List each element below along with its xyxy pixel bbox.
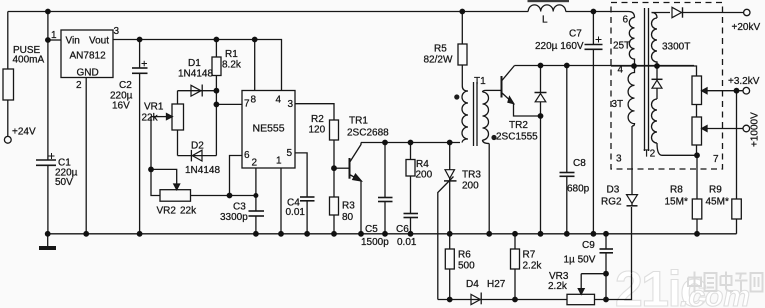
junction: VR1/VR2 wiper node bbox=[148, 167, 154, 173]
T1 secondary phase dot bbox=[491, 135, 496, 140]
tap +1000V with arrow bbox=[707, 128, 743, 130]
junction: ground rail x TR1 emitter bbox=[358, 231, 364, 237]
svg-text:R5: R5 bbox=[434, 44, 447, 55]
resistor R8 bbox=[692, 199, 702, 219]
wire: VR2 wiper link bbox=[151, 169, 177, 184]
capacitor C7 bbox=[585, 44, 603, 46]
svg-text:2.2k: 2.2k bbox=[523, 261, 543, 272]
wire: D1 node down to pin7 node and D2 loop bbox=[215, 91, 217, 156]
svg-text:R1: R1 bbox=[225, 49, 238, 60]
svg-text:NE555: NE555 bbox=[253, 123, 285, 135]
regulator U1 AN7812 bbox=[61, 30, 113, 78]
svg-text:22k: 22k bbox=[142, 113, 159, 124]
junction: ground rail x C6 bbox=[408, 231, 414, 237]
wire: divider bottom to 3300T return bbox=[696, 145, 698, 155]
svg-text:C8: C8 bbox=[573, 158, 586, 169]
svg-text:H27: H27 bbox=[487, 279, 506, 290]
svg-text:7: 7 bbox=[713, 154, 719, 165]
junction: pin4 line x C8 bbox=[564, 63, 570, 69]
wire: R4 branch bbox=[410, 143, 412, 160]
svg-text:45M*: 45M* bbox=[706, 197, 729, 208]
junction: ground rail x R7 bbox=[512, 231, 518, 237]
wire: 3300T bottom to pin7 node bbox=[662, 154, 697, 156]
junction: trigger line x R6 bbox=[447, 297, 453, 303]
junction: collector line x TR3 bbox=[447, 140, 453, 146]
svg-text:D2: D2 bbox=[191, 141, 204, 152]
svg-text:1: 1 bbox=[51, 30, 57, 41]
wire: R5 to T1 primary top bbox=[461, 65, 463, 86]
junction: R1/D1 node bbox=[214, 88, 220, 94]
junction: T2 pin4 x 25T/3T bbox=[631, 63, 637, 69]
wire: +3.2kV down line to R9 bbox=[736, 91, 738, 199]
junction: VR3 wiper x C9 bbox=[603, 271, 609, 277]
svg-text:VR1: VR1 bbox=[144, 102, 164, 113]
wire: R4 to C6 bbox=[410, 176, 412, 213]
wire: R8 to rail bbox=[696, 219, 698, 234]
svg-text:R9: R9 bbox=[709, 185, 722, 196]
svg-text:6: 6 bbox=[244, 150, 250, 161]
resistor R3 bbox=[330, 197, 339, 215]
wire: VR1 top from D1 bbox=[177, 91, 179, 104]
capacitor C4 bbox=[300, 196, 315, 198]
junction: ground rail x zener branch bbox=[538, 231, 544, 237]
wire: R3 to rail bbox=[333, 215, 335, 234]
svg-text:6: 6 bbox=[623, 15, 629, 26]
svg-text:120: 120 bbox=[309, 125, 326, 136]
svg-text:TR1: TR1 bbox=[349, 116, 368, 127]
svg-text:TR3: TR3 bbox=[462, 170, 481, 181]
svg-text:0.01: 0.01 bbox=[397, 237, 417, 248]
capacitor C8 bbox=[560, 172, 575, 174]
svg-text:8.2k: 8.2k bbox=[222, 60, 242, 71]
capacitor C9 bbox=[600, 248, 614, 250]
junction: +12V rail x R1 bbox=[214, 37, 220, 43]
watermark 21ic.com bbox=[615, 261, 763, 308]
wire: VR1 bottom to D2 bbox=[177, 130, 179, 156]
wire: T1 secondary top to TR2 base bbox=[486, 89, 502, 91]
HV rectifier diode between 3300T sections bbox=[656, 66, 658, 79]
wire: R5 branch from top rail bbox=[461, 12, 463, 45]
wire: pin 3 output to R2 bbox=[295, 104, 334, 120]
svg-text:1: 1 bbox=[276, 156, 282, 167]
wire: pin 6 to node bbox=[230, 156, 243, 196]
tap +3.2kV with arrow bbox=[707, 90, 744, 92]
svg-text:3300T: 3300T bbox=[662, 42, 690, 53]
capacitor C2 bbox=[132, 67, 148, 69]
svg-text:TR2: TR2 bbox=[509, 120, 528, 131]
capacitor C6 bbox=[404, 213, 419, 215]
resistor R2 bbox=[330, 120, 339, 140]
junction: top rail x C7 bbox=[591, 9, 597, 15]
svg-text:RG2: RG2 bbox=[601, 197, 622, 208]
wire: pin 7 down to R8 bbox=[696, 155, 698, 199]
svg-text:C3: C3 bbox=[233, 202, 246, 213]
svg-text:4: 4 bbox=[618, 65, 624, 76]
svg-text:.com: .com bbox=[680, 280, 750, 308]
svg-text:1N4148: 1N4148 bbox=[185, 165, 220, 176]
wire: TR2 collector line y=65.5 bbox=[515, 65, 695, 67]
T1 core bbox=[473, 82, 475, 146]
wire: pin4 line corner down to divider R top bbox=[694, 66, 697, 76]
wire: pin 1 to rail bbox=[280, 168, 282, 234]
svg-text:C2: C2 bbox=[119, 80, 132, 91]
wire: pin 7 feed bbox=[216, 103, 242, 105]
junction: ground rail x C8 bbox=[564, 231, 570, 237]
junction: top rail x C1 branch bbox=[45, 9, 51, 15]
transformer T2 3300T winding lower bbox=[652, 99, 662, 155]
svg-text:R2: R2 bbox=[311, 114, 324, 125]
junction: ground rail x R3 bbox=[331, 231, 337, 237]
svg-text:1µ 50V: 1µ 50V bbox=[564, 255, 596, 266]
wire: VR1 wiper column down to VR2 bbox=[151, 117, 160, 196]
svg-text:3: 3 bbox=[114, 26, 120, 37]
IC U2 NE555 bbox=[242, 91, 295, 169]
wire: C5 branch bbox=[384, 143, 386, 198]
junction: pin6 x pin2 line bbox=[253, 193, 258, 198]
potentiometer VR1 bbox=[172, 104, 184, 130]
junction: ground rail x C9 bbox=[603, 231, 609, 237]
T1 primary phase dot bbox=[454, 94, 459, 99]
svg-text:AN7812: AN7812 bbox=[70, 51, 107, 62]
junction: C1 branch x Vin pin1 bbox=[45, 37, 51, 43]
wire: left input drop from rail to fuse bbox=[7, 12, 9, 70]
junction: TR1 base node bbox=[331, 165, 337, 171]
svg-text:400mA: 400mA bbox=[13, 55, 45, 66]
svg-text:C7: C7 bbox=[569, 29, 582, 40]
wire: pin 8 to +12V rail bbox=[254, 40, 256, 91]
inductor L on top rail bbox=[528, 5, 566, 12]
capacitor C3 bbox=[249, 210, 265, 212]
svg-text:Vout: Vout bbox=[89, 36, 109, 47]
svg-text:8: 8 bbox=[251, 95, 257, 106]
diode D4 H27 bbox=[471, 294, 480, 304]
capacitor C1 bbox=[36, 159, 56, 161]
fuse PUSE 400mA bbox=[3, 69, 14, 100]
svg-text:200: 200 bbox=[416, 170, 433, 181]
wire: AN7812 GND pin2 down to rail bbox=[85, 78, 87, 234]
resistor divider upper (bleeder) bbox=[692, 76, 702, 105]
wire: C1 to ground rail bbox=[47, 165, 49, 234]
junction: top rail x R5 bbox=[459, 9, 465, 15]
resistor R4 bbox=[406, 160, 415, 177]
junction: ground rail x GND pin2 bbox=[83, 231, 89, 237]
ground bbox=[39, 246, 56, 250]
resistor R1 bbox=[212, 57, 221, 76]
wire: base node to R3 bbox=[333, 168, 335, 197]
wire: D3 up to T2 pin 3 bbox=[631, 126, 633, 195]
wire: C1 branch vertical bbox=[47, 12, 49, 160]
svg-text:+1000V: +1000V bbox=[750, 112, 761, 147]
svg-text:2: 2 bbox=[252, 158, 258, 169]
dashed enclosure of T2 bbox=[611, 3, 723, 170]
junction: pin7 node bbox=[214, 102, 220, 108]
wire: zener node down to rail bbox=[540, 116, 542, 234]
potentiometer VR2 bbox=[160, 190, 191, 202]
terminal +3.2kV bbox=[743, 87, 750, 94]
junction: ground rail x C5 bbox=[382, 231, 388, 237]
wire: VR3 right terminal loop to D3 line bbox=[595, 274, 632, 300]
svg-text:R4: R4 bbox=[416, 159, 429, 170]
junction: +12V rail x pin8 bbox=[252, 37, 258, 43]
svg-text:3: 3 bbox=[616, 154, 622, 165]
svg-text:80: 80 bbox=[342, 212, 354, 223]
wire: trigger bottom line with R6 R7 bbox=[438, 299, 567, 301]
wire: HV output line to +20kV diode bbox=[652, 12, 671, 14]
diode D2 bbox=[178, 155, 217, 157]
wire: C2 branch bbox=[139, 40, 141, 68]
svg-text:220µ 160V: 220µ 160V bbox=[535, 41, 584, 52]
resistor R7 bbox=[514, 234, 516, 249]
junction: ground rail x TR3/R6 bbox=[447, 231, 453, 237]
wire: R1 bottom to D1 node bbox=[215, 76, 217, 91]
junction: pin4 line x zener bbox=[538, 63, 544, 69]
zener diode (TR2 protection) bbox=[540, 66, 542, 94]
wire: R1 branch from +12V rail bbox=[215, 40, 217, 58]
junction: 3300T return x divider bbox=[694, 152, 700, 158]
svg-text:GND: GND bbox=[77, 68, 99, 79]
wire: D3 line crossing rail (no junction) bbox=[631, 207, 633, 274]
svg-text:D3: D3 bbox=[607, 185, 620, 196]
svg-text:T1: T1 bbox=[474, 76, 486, 87]
svg-text:T2: T2 bbox=[644, 149, 656, 160]
svg-text:+3.2kV: +3.2kV bbox=[728, 76, 760, 87]
wire: C7 to ground rail (crosses y65 line) bbox=[592, 49, 594, 234]
wire: VR2 right terminal to pin6/pin2 node bbox=[191, 195, 230, 197]
thyristor TR3 bbox=[449, 143, 451, 170]
junction: ground rail x R8 bbox=[694, 231, 700, 237]
svg-text:16V: 16V bbox=[112, 101, 130, 112]
svg-text:C5: C5 bbox=[365, 224, 378, 235]
svg-text:+20kV: +20kV bbox=[732, 22, 761, 33]
junction: collector line x C5 bbox=[382, 140, 388, 146]
svg-text:22k: 22k bbox=[180, 206, 197, 217]
junction: trigger line x R7 bbox=[512, 297, 518, 303]
terminal +20kV bbox=[744, 9, 750, 15]
svg-text:2.2k: 2.2k bbox=[548, 281, 568, 292]
svg-text:15M*: 15M* bbox=[665, 197, 688, 208]
transformer T2 25T winding bbox=[629, 12, 635, 67]
svg-text:3: 3 bbox=[288, 99, 294, 110]
junction: ground rail x C3 bbox=[253, 231, 259, 237]
transformer T2 3T winding bbox=[628, 66, 634, 126]
svg-text:Vin: Vin bbox=[66, 36, 80, 47]
junction: collector line x R4 bbox=[408, 140, 414, 146]
transformer T2 3300T winding upper bbox=[652, 13, 658, 67]
svg-text:L: L bbox=[542, 15, 548, 26]
junction: pin4 line x 3300T bbox=[654, 63, 660, 69]
wire: pin 2 down with C3 bbox=[255, 168, 257, 211]
terminal +24V bbox=[4, 136, 11, 143]
junction: ground rail x C7 branch bbox=[591, 231, 597, 237]
svg-text:50V: 50V bbox=[55, 177, 73, 188]
svg-text:3300p: 3300p bbox=[220, 212, 248, 223]
svg-text:VR2: VR2 bbox=[157, 206, 177, 217]
svg-text:7: 7 bbox=[244, 99, 250, 110]
wire: VR3 wiper to C9 node bbox=[581, 273, 606, 275]
transistor TR1 2SC2688 bbox=[334, 167, 350, 169]
wire: top +24V rail bbox=[8, 11, 528, 13]
junction: ground rail x T1 secondary bbox=[486, 231, 492, 237]
wire: divider middle link bbox=[696, 105, 698, 118]
wire: pin 5 with C4 to rail bbox=[295, 153, 307, 197]
svg-text:200: 200 bbox=[462, 181, 479, 192]
transistor TR2 2SC1555 bbox=[501, 76, 503, 98]
wire: C8 branch bbox=[566, 66, 568, 173]
wire: bottom ground rail bbox=[48, 233, 737, 235]
wire: C9 branch below rail bbox=[605, 234, 607, 249]
junction: +12V rail x C2 bbox=[137, 37, 143, 43]
resistor divider lower (bleeder) bbox=[692, 117, 702, 145]
junction: +3.2kV tap node bbox=[734, 88, 740, 94]
T2 core bbox=[644, 8, 646, 151]
junction: pin6/VR2 node bbox=[227, 193, 233, 199]
svg-text:25T: 25T bbox=[613, 41, 630, 52]
svg-text:1N4148: 1N4148 bbox=[178, 69, 213, 80]
svg-text:680p: 680p bbox=[567, 184, 590, 195]
potentiometer VR3 bbox=[567, 294, 595, 304]
wire: TR3 gate down to trigger line bbox=[438, 177, 454, 300]
junction: ground rail x C2 bbox=[137, 231, 143, 237]
svg-text:C9: C9 bbox=[582, 240, 595, 251]
svg-text:+24V: +24V bbox=[12, 127, 36, 138]
svg-text:500: 500 bbox=[458, 261, 475, 272]
svg-text:3T: 3T bbox=[612, 99, 624, 110]
resistor R9 bbox=[732, 199, 742, 219]
svg-text:D4: D4 bbox=[466, 279, 479, 290]
svg-text:R7: R7 bbox=[523, 250, 536, 261]
svg-text:2: 2 bbox=[76, 80, 82, 91]
junction: ground rail x C4 bbox=[304, 231, 310, 237]
svg-text:D1: D1 bbox=[188, 58, 201, 69]
svg-text:2SC2688: 2SC2688 bbox=[347, 128, 389, 139]
junction: VR3 right x C9 line bbox=[603, 297, 609, 303]
svg-text:0.01: 0.01 bbox=[286, 207, 306, 218]
wire: fuse to +24V terminal bbox=[7, 100, 9, 136]
svg-text:5: 5 bbox=[287, 148, 293, 159]
svg-text:C6: C6 bbox=[396, 224, 409, 235]
junction: TR2 emitter x zener bbox=[538, 113, 544, 119]
diode D1 bbox=[178, 90, 217, 92]
wire: T1 secondary bottom to rail bbox=[488, 144, 490, 234]
junction: ground rail x C1/ground bbox=[45, 231, 51, 237]
wire: diode to +20kV terminal bbox=[681, 12, 744, 14]
svg-text:R6: R6 bbox=[458, 250, 471, 261]
diode output rectifier bbox=[672, 7, 682, 17]
resistor R6 bbox=[449, 234, 451, 249]
wire: pin6 node over to pin2 line bbox=[230, 195, 256, 197]
svg-text:R8: R8 bbox=[670, 185, 683, 196]
junction: ground rail x pin1 bbox=[278, 231, 284, 237]
svg-text:R3: R3 bbox=[342, 201, 355, 212]
svg-text:1500p: 1500p bbox=[361, 237, 389, 248]
wire: TR1 collector line to T1 primary bbox=[361, 142, 460, 144]
wire: pin1 Vin from C1 line to regulator bbox=[48, 39, 61, 41]
wire: R9 to rail end bbox=[736, 219, 738, 234]
resistor R5 bbox=[458, 44, 467, 65]
capacitor C5 bbox=[378, 197, 393, 199]
wire: C7 branch from top rail bbox=[592, 12, 594, 45]
scan artifact bar top edge bbox=[528, 0, 570, 2]
wire: C2 to rail bbox=[139, 73, 141, 234]
diode D3 RG2 bbox=[627, 195, 638, 204]
wire: pin4 line inside box bbox=[611, 65, 694, 67]
transformer T1 secondary winding bbox=[483, 90, 490, 143]
wire: R2 bottom to base node bbox=[333, 140, 335, 168]
svg-text:4: 4 bbox=[276, 95, 282, 106]
terminal +1000V bbox=[743, 125, 750, 132]
wire: +12V rail from AN7812 pin3 bbox=[113, 40, 282, 91]
svg-text:2SC1555: 2SC1555 bbox=[496, 132, 538, 143]
transformer T1 primary winding bbox=[462, 86, 468, 143]
svg-text:82/2W: 82/2W bbox=[424, 55, 453, 66]
